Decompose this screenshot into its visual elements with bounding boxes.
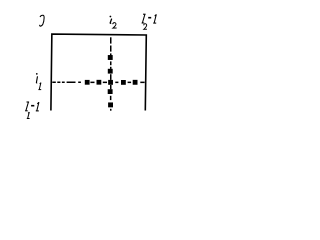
node up2 — [108, 55, 113, 60]
domain boundary box (open at bottom) — [51, 34, 146, 110]
label j (top-left glyph) — [40, 15, 44, 26]
label i1 — [36, 73, 38, 83]
node right1 — [121, 80, 126, 85]
grid line i2: vertical dashed line — [110, 37, 112, 110]
node left1 — [97, 80, 102, 85]
label i2 — [110, 16, 112, 24]
node down2 — [108, 102, 113, 107]
node center — [108, 80, 113, 85]
label I2-1 — [142, 14, 146, 23]
label I1-1 — [25, 102, 29, 111]
grid line i1: horizontal dashed line — [52, 82, 144, 84]
node down1 — [108, 89, 113, 94]
node up1 — [108, 69, 113, 74]
stencil nodes: black squares — [85, 55, 138, 107]
node right2 — [133, 80, 138, 85]
node left2 — [85, 80, 90, 85]
